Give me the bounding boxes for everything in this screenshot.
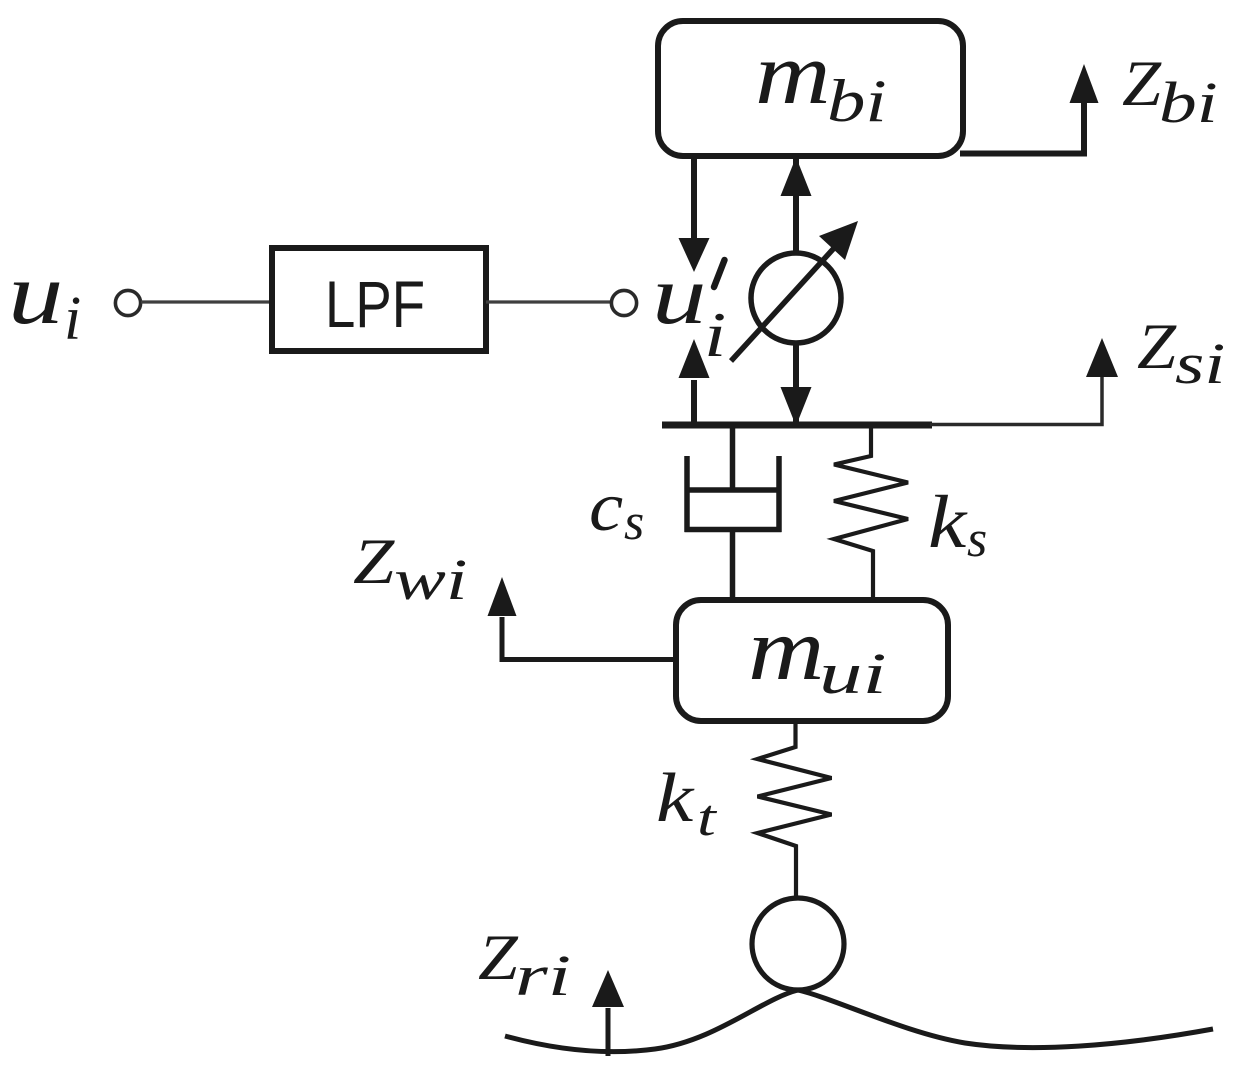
svg-text:u: u — [8, 245, 63, 343]
svg-text:m: m — [755, 25, 831, 122]
svg-text:ui: ui — [819, 641, 887, 705]
svg-text:Z: Z — [353, 526, 396, 598]
svg-text:t: t — [697, 789, 717, 847]
svg-text:wi: wi — [394, 547, 467, 611]
svg-text:k: k — [928, 481, 969, 564]
svg-text:Z: Z — [1137, 310, 1177, 382]
svg-text:i: i — [704, 299, 726, 371]
svg-text:s: s — [624, 494, 644, 551]
svg-text:s: s — [967, 511, 987, 568]
svg-text:bi: bi — [827, 68, 887, 134]
svg-text:bi: bi — [1159, 70, 1218, 135]
svg-text:c: c — [589, 467, 623, 545]
svg-text:k: k — [656, 759, 695, 837]
svg-text:ri: ri — [515, 944, 571, 1008]
svg-text:i: i — [64, 285, 81, 353]
svg-text:Z: Z — [1122, 47, 1162, 119]
svg-text:Z: Z — [478, 921, 519, 993]
svg-text:u: u — [652, 249, 707, 342]
svg-text:m: m — [748, 601, 824, 699]
svg-text:si: si — [1175, 331, 1225, 396]
svg-text:LPF: LPF — [325, 267, 425, 341]
